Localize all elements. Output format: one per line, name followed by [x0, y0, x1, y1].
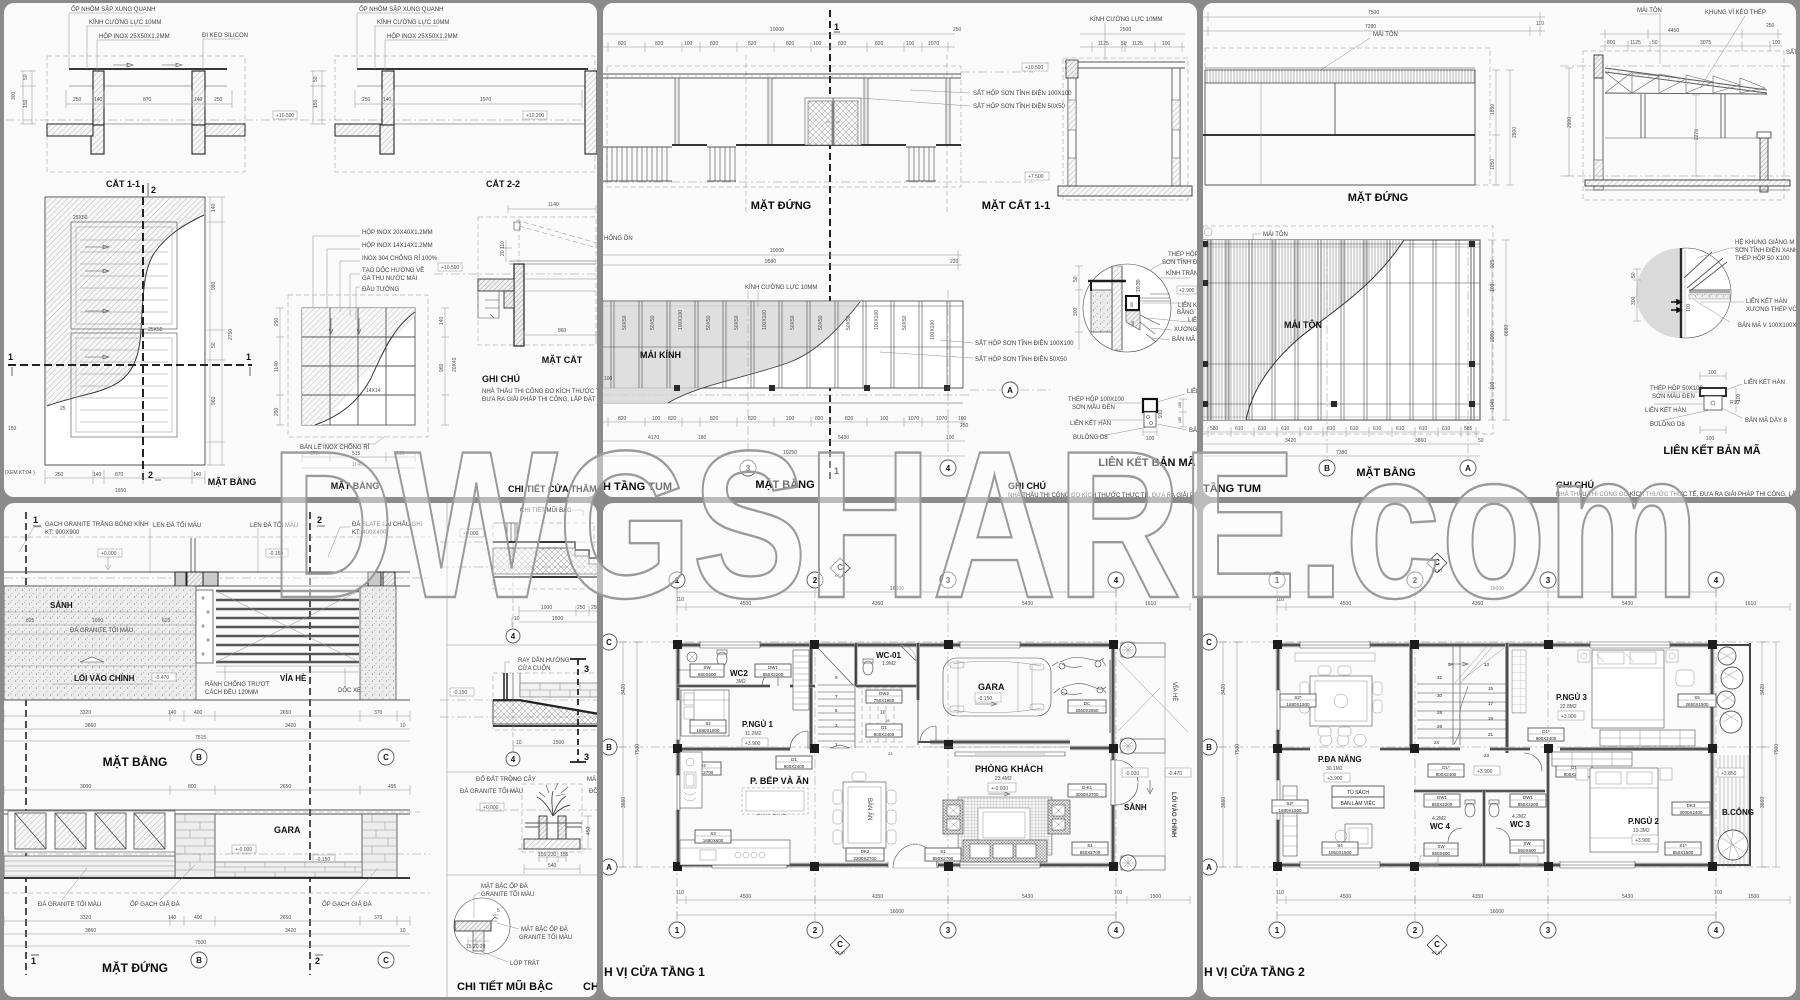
svg-text:25X50: 25X50	[73, 215, 88, 221]
label S3 1680X600	[695, 830, 731, 843]
svg-text:2: 2	[813, 926, 818, 935]
svg-text:HỘP INOX 25X50X1.2MM: HỘP INOX 25X50X1.2MM	[99, 33, 170, 40]
tile D white sheet (bottom-left)	[4, 503, 597, 997]
label S2* second	[1272, 800, 1308, 813]
svg-text:3420: 3420	[621, 684, 627, 695]
svg-text:P.ĐA NĂNG: P.ĐA NĂNG	[1318, 755, 1362, 764]
svg-text:BẰNG: BẰNG	[1177, 308, 1194, 316]
svg-text:3420: 3420	[1760, 684, 1766, 695]
roof slope dashed lines	[516, 220, 597, 248]
label DK2 2200X2700	[846, 848, 884, 861]
CAT1-1 callout OP NHOM SAP XUNG QUANH	[69, 13, 146, 69]
svg-text:LỚP TRÁT: LỚP TRÁT	[510, 960, 540, 967]
axis grid dashed lines	[1277, 572, 1716, 940]
svg-text:6680: 6680	[1504, 325, 1510, 336]
svg-text:100: 100	[1708, 370, 1717, 376]
svg-text:SẮT HỘP SƠN TĨNH ĐIỆN 100X100: SẮT HỘP SƠN TĨNH ĐIỆN 100X100	[975, 339, 1074, 347]
label DK1 3000X2700	[1068, 784, 1106, 797]
svg-text:21: 21	[1488, 732, 1494, 737]
svg-text:14X14: 14X14	[366, 388, 381, 394]
svg-text:ĐẦU TƯỜNG: ĐẦU TƯỜNG	[362, 286, 399, 293]
B.CONG balcony	[1720, 755, 1748, 865]
svg-text:LỐI VÀO CHÍNH: LỐI VÀO CHÍNH	[74, 673, 135, 683]
CAT1-1 ceiling hatched band	[47, 124, 93, 136]
svg-text:2: 2	[1413, 926, 1418, 935]
section MAT CAT 1-1	[1063, 58, 1188, 200]
svg-text:1: 1	[8, 352, 13, 362]
svg-text:HỆ KHUNG GIẰNG M: HỆ KHUNG GIẰNG M	[1735, 238, 1794, 246]
light axis lines 3 and 4 through elevation	[746, 55, 947, 215]
tile B white sheet (top-middle)	[603, 3, 1197, 497]
svg-text:23: 23	[1484, 753, 1490, 758]
hatch region left of break line	[46, 198, 204, 406]
MAT CAT roof detail: top dim 1140	[508, 205, 596, 213]
svg-text:SẮT HỘP SƠN TĨNH ĐIỆN 100X100: SẮT HỘP SƠN TĨNH ĐIỆN 100X100	[973, 89, 1072, 97]
elevation material callouts	[62, 868, 87, 900]
svg-text:3660: 3660	[1221, 797, 1227, 808]
elevation top dim row	[603, 34, 955, 47]
svg-text:300: 300	[1631, 296, 1637, 305]
axis 2 line	[309, 512, 311, 975]
skylight plan S-curve break line	[47, 215, 204, 406]
svg-text:H VỊ CỬA TẦNG 1: H VỊ CỬA TẦNG 1	[604, 964, 705, 979]
svg-text:WC-01: WC-01	[876, 651, 901, 660]
svg-text:22.8M2: 22.8M2	[1560, 704, 1577, 710]
svg-text:GHI CHÚ: GHI CHÚ	[482, 373, 520, 384]
roof band with vertical hatch	[1205, 70, 1475, 83]
svg-text:LỐI VÀO CHÍNH: LỐI VÀO CHÍNH	[1170, 792, 1178, 837]
steel box 100x100	[1126, 296, 1139, 310]
svg-text:DK3: DK3	[1687, 803, 1696, 808]
svg-text:4500: 4500	[1340, 894, 1351, 900]
svg-text:50: 50	[1121, 41, 1127, 47]
axis grid dashed lines	[677, 572, 1116, 940]
svg-text:SƠN TĨNH ĐIỆN XANH: SƠN TĨNH ĐIỆN XANH	[1735, 246, 1798, 254]
interior walls	[809, 643, 813, 750]
svg-text:495: 495	[388, 784, 397, 790]
gusset callouts	[1697, 248, 1744, 258]
elevation MAT DUNG	[4, 810, 410, 814]
plant scribble	[537, 791, 570, 816]
svg-text:ĐÁ GRANITE TỐI MÀU: ĐÁ GRANITE TỐI MÀU	[38, 901, 101, 908]
svg-text:32: 32	[1437, 675, 1443, 680]
svg-text:10: 10	[516, 740, 522, 746]
horizontal beams	[1203, 244, 1480, 404]
svg-text:1: 1	[246, 352, 251, 362]
wall piers hatched	[175, 572, 186, 586]
svg-text:150: 150	[8, 426, 17, 432]
svg-text:SẮT HỘP SƠN TĨNH ĐIỆN 50X50: SẮT HỘP SƠN TĨNH ĐIỆN 50X50	[975, 355, 1068, 363]
svg-text:4350: 4350	[872, 894, 883, 900]
section top dims	[1080, 34, 1185, 52]
CAT2-2 dims	[355, 90, 582, 108]
svg-text:5430: 5430	[1622, 894, 1633, 900]
svg-text:10.30: 10.30	[1136, 279, 1142, 292]
svg-text:50X50: 50X50	[902, 315, 908, 330]
svg-text:10: 10	[400, 928, 406, 934]
svg-text:24: 24	[1434, 740, 1440, 745]
svg-text:1125: 1125	[1098, 41, 1109, 47]
label SW 650X600	[690, 664, 724, 677]
svg-text:1650: 1650	[92, 618, 103, 624]
kitchen counter bottom + cooktop	[680, 840, 790, 865]
svg-text:540: 540	[548, 863, 557, 869]
svg-text:9580: 9580	[765, 259, 776, 265]
detail: stair nosing circle	[454, 898, 510, 954]
roof plan bottom dims	[1203, 432, 1480, 456]
label DC 2650X2850	[1068, 700, 1106, 713]
svg-text:7500: 7500	[195, 940, 206, 946]
svg-text:23.4M2: 23.4M2	[995, 776, 1012, 782]
GARA car top view	[943, 658, 1051, 716]
svg-text:MÁI TÔN: MÁI TÔN	[1263, 231, 1288, 238]
plan bottom dims	[45, 470, 205, 484]
svg-text:140: 140	[168, 915, 177, 921]
datum line +10.500	[6, 119, 595, 121]
svg-text:3075: 3075	[1700, 40, 1711, 46]
svg-text:GRANITE TỐI MÀU: GRANITE TỐI MÀU	[519, 934, 572, 941]
bottom dim rows	[1277, 896, 1790, 904]
column blocks	[673, 640, 1118, 871]
purlin double lines	[1226, 240, 1459, 420]
CAT1-1 left dim stack	[20, 71, 36, 124]
svg-text:1950X1500: 1950X1500	[1328, 850, 1352, 855]
svg-text:D1: D1	[791, 757, 797, 762]
svg-text:100: 100	[604, 376, 613, 382]
svg-text:800: 800	[188, 784, 197, 790]
svg-text:400: 400	[194, 710, 203, 716]
datum	[438, 263, 462, 271]
svg-text:3420: 3420	[285, 928, 296, 934]
svg-text:100X100: 100X100	[930, 320, 936, 340]
svg-text:250: 250	[55, 472, 64, 478]
svg-text:SẢNH: SẢNH	[1124, 803, 1147, 812]
svg-text:DC: DC	[1084, 701, 1091, 706]
svg-text:925: 925	[1490, 259, 1496, 268]
axis circle A	[1002, 382, 1018, 398]
svg-text:150: 150	[23, 99, 29, 108]
step profile left	[478, 291, 499, 318]
wardrobe strip right of stair	[1512, 650, 1526, 713]
axis circles B C	[191, 749, 207, 765]
svg-text:2: 2	[148, 470, 153, 480]
entry plan top wall	[4, 536, 430, 538]
plate detail callouts	[1107, 402, 1143, 404]
svg-text:3660: 3660	[621, 797, 627, 808]
CAT 2-2 glass line	[357, 68, 588, 70]
door double leaf	[805, 98, 861, 145]
right column	[1760, 137, 1768, 192]
brick band right	[520, 683, 600, 697]
small plan dashed boundary	[288, 295, 428, 437]
kitchen island	[742, 788, 808, 814]
svg-text:3660: 3660	[1760, 797, 1766, 808]
svg-text:S2: S2	[705, 721, 711, 726]
CAT1-1 left post	[93, 71, 104, 125]
svg-text:A: A	[1007, 386, 1013, 395]
svg-text:BẢN MÃ: BẢN MÃ	[1172, 336, 1195, 343]
svg-text:BÀN LÀM VIỆC: BÀN LÀM VIỆC	[1340, 799, 1375, 807]
truss section boundary	[1583, 51, 1784, 200]
svg-text:ĐÁ GRANITE TỐI MÀU: ĐÁ GRANITE TỐI MÀU	[460, 788, 523, 795]
svg-text:LIÊN KẾT HÀN: LIÊN KẾT HÀN	[1746, 297, 1787, 305]
svg-text:1680X1500: 1680X1500	[1278, 808, 1302, 813]
svg-text:5: 5	[497, 908, 500, 914]
svg-text:CHI TIẾT MŨI BẬC: CHI TIẾT MŨI BẬC	[457, 980, 553, 993]
shaded glass region	[603, 302, 860, 403]
svg-text:140: 140	[439, 316, 445, 325]
svg-text:140: 140	[383, 97, 392, 103]
interior walls	[1409, 643, 1413, 750]
glass line	[509, 261, 596, 264]
svg-text:2200X2700: 2200X2700	[853, 856, 877, 861]
detail circle LIEN KET BAN MA	[1083, 264, 1171, 352]
eave band	[603, 74, 961, 78]
truss X web	[1605, 72, 1765, 93]
svg-text:1: 1	[1275, 926, 1280, 935]
bottom dim rows	[677, 896, 1190, 904]
svg-text:D1*: D1*	[1542, 729, 1550, 734]
svg-text:KT: 900X900: KT: 900X900	[45, 530, 80, 536]
shower heads	[1436, 862, 1480, 868]
svg-text:300: 300	[11, 91, 17, 100]
svg-text:CÁCH ĐỀU 120MM: CÁCH ĐỀU 120MM	[205, 689, 258, 696]
section CAT 1-1 glass top line	[69, 68, 227, 70]
svg-text:HỘP INOX 20X40X1.2MM: HỘP INOX 20X40X1.2MM	[362, 229, 433, 236]
axis circles 3 and 4	[748, 290, 948, 470]
svg-text:19: 19	[1488, 716, 1494, 721]
svg-text:100: 100	[1736, 393, 1742, 402]
axis circles bottom	[1269, 922, 1285, 938]
small plan leader callouts	[313, 236, 360, 320]
svg-text:THÉP HỘP 50 X100: THÉP HỘP 50 X100	[1735, 255, 1790, 262]
MAT CAT dashed boundary	[478, 217, 596, 345]
svg-text:290: 290	[274, 317, 280, 326]
truss vertical dim 2900	[1565, 68, 1573, 176]
svg-text:S3: S3	[710, 831, 716, 836]
stipple piers flanking steps	[196, 590, 213, 663]
elevation dashed boundary	[1205, 48, 1490, 185]
svg-text:50X50: 50X50	[846, 315, 852, 330]
svg-text:-0.150: -0.150	[978, 696, 992, 702]
svg-text:1650: 1650	[115, 488, 126, 494]
svg-text:250: 250	[362, 97, 371, 103]
svg-text:4450: 4450	[1668, 28, 1679, 34]
svg-text:ỐP GẠCH GIẢ ĐÁ: ỐP GẠCH GIẢ ĐÁ	[322, 901, 372, 908]
cross-hatched slab	[493, 548, 600, 574]
label D1 900X2400	[866, 724, 902, 737]
svg-text:7500: 7500	[1774, 744, 1780, 755]
label D1 900X2400 bedroom2	[1556, 764, 1592, 777]
svg-text:19.3M2: 19.3M2	[1633, 828, 1650, 834]
windows on walls	[1300, 641, 1370, 648]
elevation right dims	[1492, 70, 1514, 185]
svg-text:SW: SW	[1523, 841, 1531, 846]
truss wedge: top chord with roofing hatch	[1605, 68, 1767, 93]
svg-text:100X100: 100X100	[678, 310, 684, 330]
svg-text:650X600: 650X600	[698, 672, 717, 677]
CAT1-1 dims	[66, 90, 232, 108]
living rug	[958, 797, 1052, 855]
roof plan body	[1203, 240, 1480, 420]
svg-text:WC 3: WC 3	[1510, 820, 1531, 829]
svg-text:S1: S1	[940, 849, 946, 854]
svg-text:110: 110	[1536, 21, 1544, 27]
entry steps strips	[216, 591, 359, 662]
svg-text:250: 250	[1766, 23, 1775, 29]
CAT2-2 left dim stack	[310, 71, 326, 124]
svg-text:3420: 3420	[285, 723, 296, 729]
small plan right dims	[441, 308, 449, 425]
svg-text:750X1950: 750X1950	[874, 698, 895, 703]
svg-text:150: 150	[313, 99, 319, 108]
axis circles B and A	[1327, 240, 1468, 466]
svg-text:2: 2	[151, 185, 156, 195]
svg-text:900X2400: 900X2400	[784, 764, 805, 769]
railing patches	[603, 147, 672, 181]
svg-text:+0.000: +0.000	[101, 551, 117, 557]
hinge callout	[320, 436, 385, 444]
label S1 850X2700 bottom-mid	[925, 848, 961, 861]
detail circle (gusset)	[1641, 248, 1731, 338]
svg-text:XƯƠNG THÉP VỚI BẢN MÃ: XƯƠNG THÉP VỚI BẢN MÃ	[1746, 306, 1800, 313]
mullion pairs	[611, 301, 950, 388]
living room window sill	[930, 746, 1070, 748]
plan axis 2 vertical dashed	[142, 185, 144, 480]
svg-text:110: 110	[676, 890, 684, 896]
svg-text:7515: 7515	[195, 735, 206, 741]
svg-text:C: C	[837, 940, 843, 949]
svg-text:850X2700: 850X2700	[933, 856, 954, 861]
callout LEN DA TOI MAU 2	[257, 528, 259, 573]
svg-text:KT-07: KT-07	[835, 950, 846, 955]
svg-text:16000: 16000	[1490, 909, 1504, 915]
svg-text:DW1: DW1	[1437, 795, 1447, 800]
callout DI KEO SILICON	[203, 39, 240, 69]
WC4	[1424, 794, 1460, 807]
svg-text:820: 820	[786, 41, 795, 47]
label D1* 900X2400 (stair)	[1428, 764, 1464, 777]
svg-text:A: A	[1206, 863, 1212, 872]
svg-text:1140: 1140	[548, 202, 559, 208]
axis mark 2 top of plan	[147, 183, 149, 196]
datum lines	[961, 71, 1033, 73]
svg-text:GARA: GARA	[274, 825, 301, 835]
svg-text:MÁI TÔN: MÁI TÔN	[1284, 319, 1322, 330]
svg-text:50X50: 50X50	[650, 315, 656, 330]
datum +10.200	[523, 111, 547, 119]
small plan left dims	[276, 308, 284, 425]
label DW1 850X2200	[755, 664, 791, 677]
svg-text:850X2200: 850X2200	[763, 672, 784, 677]
svg-text:C: C	[383, 956, 389, 965]
svg-text:KÍNH CƯỜNG LỰC 10MM: KÍNH CƯỜNG LỰC 10MM	[89, 19, 161, 26]
svg-text:16000: 16000	[890, 909, 904, 915]
svg-text:15 20 20: 15 20 20	[466, 944, 486, 950]
svg-text:1500: 1500	[1150, 894, 1161, 900]
main vertical axis 1 dashed	[829, 10, 831, 480]
svg-text:100: 100	[1114, 890, 1123, 896]
WC3	[1510, 794, 1546, 807]
small dims	[500, 240, 512, 262]
elevation boundary dashed	[607, 66, 961, 187]
small plan dims bottom	[302, 452, 415, 468]
svg-text:1050: 1050	[1490, 159, 1496, 170]
WC2 door arc	[762, 670, 778, 686]
svg-text:+10.500: +10.500	[1025, 65, 1043, 71]
svg-text:+3.900: +3.900	[1635, 838, 1651, 844]
svg-text:980: 980	[211, 281, 217, 290]
svg-text:-0.020: -0.020	[1125, 771, 1139, 777]
bottom slab	[1560, 175, 1790, 177]
svg-text:S1: S1	[1087, 843, 1093, 848]
svg-text:HỐNG ỒN: HỐNG ỒN	[604, 235, 633, 242]
kitchen counter left	[680, 752, 702, 808]
svg-text:17: 17	[1488, 701, 1494, 706]
gusset circle dims	[1633, 269, 1641, 321]
svg-text:+3.900: +3.900	[1561, 714, 1577, 720]
svg-text:100: 100	[1706, 436, 1715, 442]
svg-text:2900: 2900	[1567, 117, 1573, 128]
svg-text:100: 100	[1772, 40, 1781, 46]
driveway splay	[1118, 660, 1188, 732]
glass lines right	[1139, 294, 1170, 301]
axis 1 line	[25, 512, 27, 975]
glass roof plan MAT BANG	[603, 301, 963, 388]
svg-text:CẮT 2-2: CẮT 2-2	[486, 179, 520, 189]
tile F white sheet (bottom-right)	[1203, 503, 1796, 997]
svg-text:B: B	[1206, 743, 1212, 752]
svg-text:1: 1	[834, 22, 839, 32]
svg-text:11.2M2: 11.2M2	[745, 731, 762, 737]
svg-text:3000X2400: 3000X2400	[1679, 810, 1703, 815]
window openings (white) on walls	[700, 641, 760, 648]
svg-text:PHÒNG KHÁCH: PHÒNG KHÁCH	[975, 763, 1043, 774]
svg-text:ĐỔ ĐẤT TRỒNG CÂY: ĐỔ ĐẤT TRỒNG CÂY	[476, 776, 536, 783]
svg-text:3860: 3860	[85, 723, 96, 729]
svg-text:100: 100	[1490, 381, 1496, 390]
svg-text:1.9M2: 1.9M2	[882, 661, 896, 667]
svg-text:KÍNH CƯỜNG LỰC 10MM: KÍNH CƯỜNG LỰC 10MM	[745, 284, 817, 291]
callout KINH CUONG LUC 10MM	[87, 26, 150, 69]
CAT1-1 right post	[192, 71, 205, 125]
svg-text:100: 100	[1131, 321, 1135, 327]
diamond C top	[830, 558, 850, 578]
svg-text:2650X2850: 2650X2850	[1075, 708, 1099, 713]
plate connection detail	[1700, 372, 1726, 380]
dims	[512, 606, 600, 627]
svg-text:1: 1	[675, 926, 680, 935]
CAT2-2 right post (at tile edge)	[585, 71, 597, 154]
svg-text:1: 1	[33, 515, 38, 525]
svg-text:INOX 304 CHỐNG RỈ 100%: INOX 304 CHỐNG RỈ 100%	[362, 255, 438, 262]
svg-text:THÉP HỘP 100X100: THÉP HỘP 100X100	[1068, 396, 1125, 403]
svg-text:(XEM KT:04 ): (XEM KT:04 )	[5, 470, 35, 476]
roof plan MAI TON leader	[1253, 234, 1261, 247]
svg-text:3000X2700: 3000X2700	[1075, 792, 1099, 797]
svg-text:1610: 1610	[1745, 601, 1756, 607]
svg-text:220: 220	[950, 259, 959, 265]
svg-text:4: 4	[1714, 926, 1719, 935]
armchair bedroom3	[1676, 670, 1694, 686]
svg-text:SẮT HỘP SƠN TĨNH ĐIỆN 50X50: SẮT HỘP SƠN TĨNH ĐIỆN 50X50	[973, 102, 1066, 110]
svg-text:B.CÔNG: B.CÔNG	[1722, 808, 1754, 817]
svg-text:960: 960	[211, 396, 217, 405]
svg-text:20X40: 20X40	[452, 357, 458, 372]
svg-text:13: 13	[1484, 662, 1490, 667]
plan axis 1 horizontal	[8, 364, 252, 366]
svg-text:KT-07: KT-07	[1432, 950, 1443, 955]
